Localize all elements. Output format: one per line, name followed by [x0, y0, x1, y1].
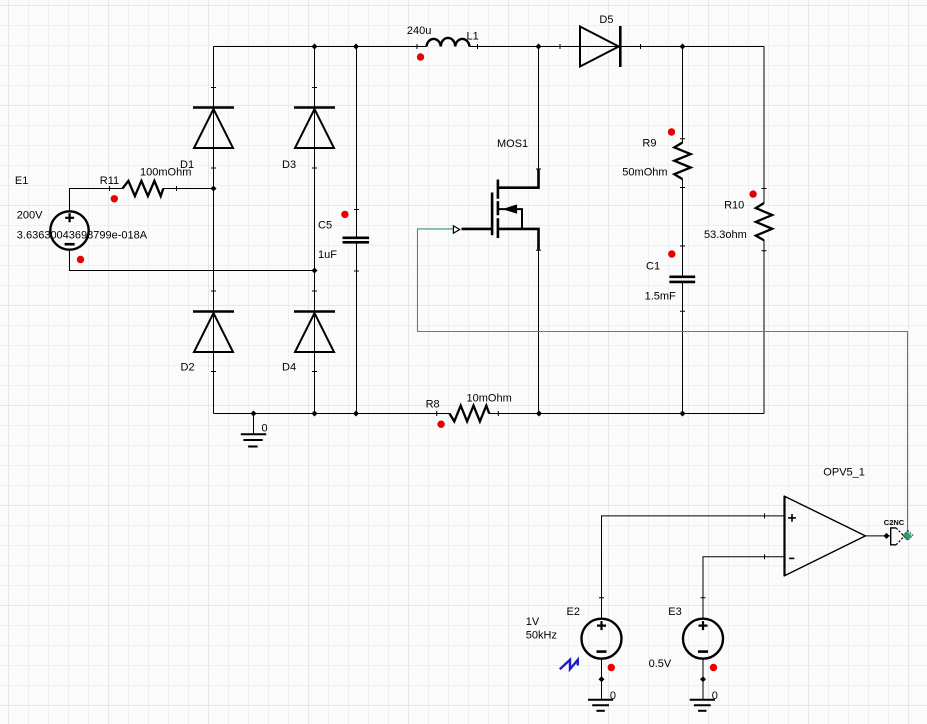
- label R8 value 10mOhm: [467, 392, 512, 404]
- label R9 value 50mOhm: [622, 167, 667, 179]
- label R9: [642, 138, 656, 150]
- label ground E2 0: [610, 690, 616, 702]
- node output green diamond: [902, 530, 912, 540]
- op-amp U1 OPV5_1: [785, 496, 866, 576]
- svg-text:C2NC: C2NC: [884, 518, 905, 527]
- probe dot R9: [668, 128, 675, 135]
- diode D4: [294, 312, 335, 353]
- label R11 value 100mOhm: [140, 167, 191, 179]
- wire op-amp output: [866, 535, 891, 537]
- label E1 current value: [17, 230, 148, 242]
- svg-text:D4: D4: [282, 361, 296, 373]
- source E3: [683, 619, 723, 659]
- resistor R10: [756, 203, 772, 240]
- probe dot R11: [111, 195, 118, 202]
- diode D3: [294, 108, 335, 149]
- label E1: [15, 175, 28, 187]
- svg-text:0: 0: [712, 690, 718, 702]
- svg-text:OPV5_1: OPV5_1: [823, 467, 865, 479]
- label L1: [467, 30, 479, 42]
- svg-text:50mOhm: 50mOhm: [622, 167, 667, 179]
- sawtooth waveform icon E2: [560, 660, 578, 670]
- svg-text:D5: D5: [599, 14, 613, 26]
- wire R9/C1 branch vertical: [682, 47, 684, 414]
- junction top bus at C5: [353, 44, 359, 50]
- svg-text:1uF: 1uF: [318, 249, 337, 261]
- ground E2 0: [588, 700, 613, 711]
- wire op-amp minus input from E3: [703, 557, 785, 619]
- wire top bus (node after bridge / L1 / D5 to R10 top): [214, 46, 765, 48]
- resistor R11: [123, 181, 164, 196]
- label R10 value 53.3ohm: [704, 229, 747, 241]
- svg-text:200V: 200V: [17, 210, 43, 222]
- wire E1 bottom to bridge node: [70, 250, 315, 271]
- diode D5: [580, 26, 620, 67]
- svg-text:0: 0: [262, 423, 268, 435]
- label ground main 0: [262, 423, 268, 435]
- svg-text:R11: R11: [100, 175, 119, 187]
- label L1 value 240u: [407, 25, 431, 37]
- diode D2: [193, 312, 234, 353]
- label E3: [668, 606, 681, 618]
- label node C2NC: [884, 518, 905, 527]
- label D4: [282, 361, 296, 373]
- wire op-amp plus input from E2: [602, 516, 785, 619]
- label R8: [426, 399, 440, 411]
- svg-text:10mOhm: 10mOhm: [467, 392, 512, 404]
- wire right bridge leg D3-D4 vertical: [314, 47, 316, 414]
- label ground E3 0: [712, 690, 718, 702]
- svg-text:MOS1: MOS1: [497, 138, 528, 150]
- svg-text:1.5mF: 1.5mF: [645, 291, 676, 303]
- junction bottom bus at ground: [251, 411, 257, 417]
- junction bottom bus at D4: [312, 411, 318, 417]
- junction bottom bus at MOS1 source: [536, 411, 542, 417]
- svg-text:R10: R10: [724, 199, 744, 211]
- svg-text:C1: C1: [646, 261, 660, 273]
- wire MOS1 source vertical: [538, 250, 540, 414]
- source E2: [582, 619, 622, 659]
- junction R11 to bridge: [211, 186, 217, 192]
- diode D1: [193, 108, 234, 149]
- svg-text:E3: E3: [668, 606, 681, 618]
- label E2 value 50kHz: [526, 629, 557, 641]
- wire E3 bottom to ground: [702, 659, 704, 700]
- ground main 0: [241, 434, 266, 446]
- svg-text:D1: D1: [180, 159, 194, 171]
- junction E1 bottom to bridge: [312, 268, 318, 274]
- resistor R9: [674, 143, 690, 180]
- label C1 value 1.5mF: [645, 291, 676, 303]
- junction top bus at D3: [312, 44, 318, 50]
- label D1: [180, 159, 194, 171]
- label MOS1: [497, 138, 528, 150]
- svg-text:3.63630043698799e-018A: 3.63630043698799e-018A: [17, 230, 148, 242]
- label R10: [724, 199, 744, 211]
- junction op-amp output: [884, 533, 890, 539]
- inductor L1: [427, 38, 470, 47]
- probe dot E2: [608, 664, 615, 671]
- node C2NC output tag: [891, 528, 905, 545]
- capacitor C1: [669, 277, 695, 282]
- probe dot C5: [341, 211, 348, 218]
- svg-text:R9: R9: [642, 138, 656, 150]
- probe dot R10: [749, 190, 756, 197]
- probe dot L1: [417, 53, 424, 60]
- svg-text:0: 0: [610, 690, 616, 702]
- svg-text:1V: 1V: [526, 616, 540, 628]
- svg-text:E2: E2: [567, 606, 580, 618]
- label E3 value 0.5V: [649, 658, 672, 670]
- wire MOS1 drain vertical: [538, 47, 540, 171]
- probe dot E3: [710, 664, 717, 671]
- label R11: [100, 175, 119, 187]
- probe dot E1: [77, 256, 84, 263]
- wire gate control (green net): [418, 229, 908, 532]
- junction E2 ground node: [599, 676, 605, 682]
- wire ground stub: [253, 414, 255, 435]
- svg-text:D2: D2: [181, 361, 195, 373]
- label D2: [181, 361, 195, 373]
- svg-text:50kHz: 50kHz: [526, 629, 557, 641]
- label D5: [599, 14, 613, 26]
- probe dot R8: [437, 421, 444, 428]
- svg-text:240u: 240u: [407, 25, 431, 37]
- ground E3 0: [690, 700, 715, 711]
- resistor R8: [450, 406, 490, 422]
- wire R11 to bridge node: [163, 188, 214, 190]
- wire bottom bus: [214, 413, 765, 415]
- label E2: [567, 606, 580, 618]
- label E2 value 1V: [526, 616, 540, 628]
- junction top bus at R9: [680, 44, 686, 50]
- junction top bus at MOS1 drain: [536, 44, 542, 50]
- wire E1 to R11: [70, 189, 123, 212]
- junction bottom bus at C1: [680, 411, 686, 417]
- transistor MOS1: [453, 170, 538, 251]
- svg-text:C5: C5: [318, 219, 332, 231]
- wire C5 branch vertical: [356, 47, 358, 414]
- wire left bridge leg D1-D2 vertical: [213, 47, 215, 414]
- junction E3 ground node: [700, 676, 706, 682]
- probe dot C1: [668, 250, 675, 257]
- svg-text:D3: D3: [282, 159, 296, 171]
- wire R10 branch vertical: [763, 47, 765, 414]
- pin ticks: [110, 44, 767, 598]
- svg-text:L1: L1: [467, 30, 479, 42]
- capacitor C5: [343, 238, 370, 243]
- wire E2 bottom to ground: [601, 659, 603, 700]
- label OPV5_1: [823, 467, 865, 479]
- source E1: [50, 211, 88, 249]
- label C5 value 1uF: [318, 249, 337, 261]
- svg-text:0.5V: 0.5V: [649, 658, 672, 670]
- label C5: [318, 219, 332, 231]
- svg-text:E1: E1: [15, 175, 28, 187]
- svg-text:53.3ohm: 53.3ohm: [704, 229, 747, 241]
- label E1 value 200V: [17, 210, 43, 222]
- label D3: [282, 159, 296, 171]
- junction bottom bus at C5: [353, 411, 359, 417]
- svg-text:R8: R8: [426, 399, 440, 411]
- label C1: [646, 261, 660, 273]
